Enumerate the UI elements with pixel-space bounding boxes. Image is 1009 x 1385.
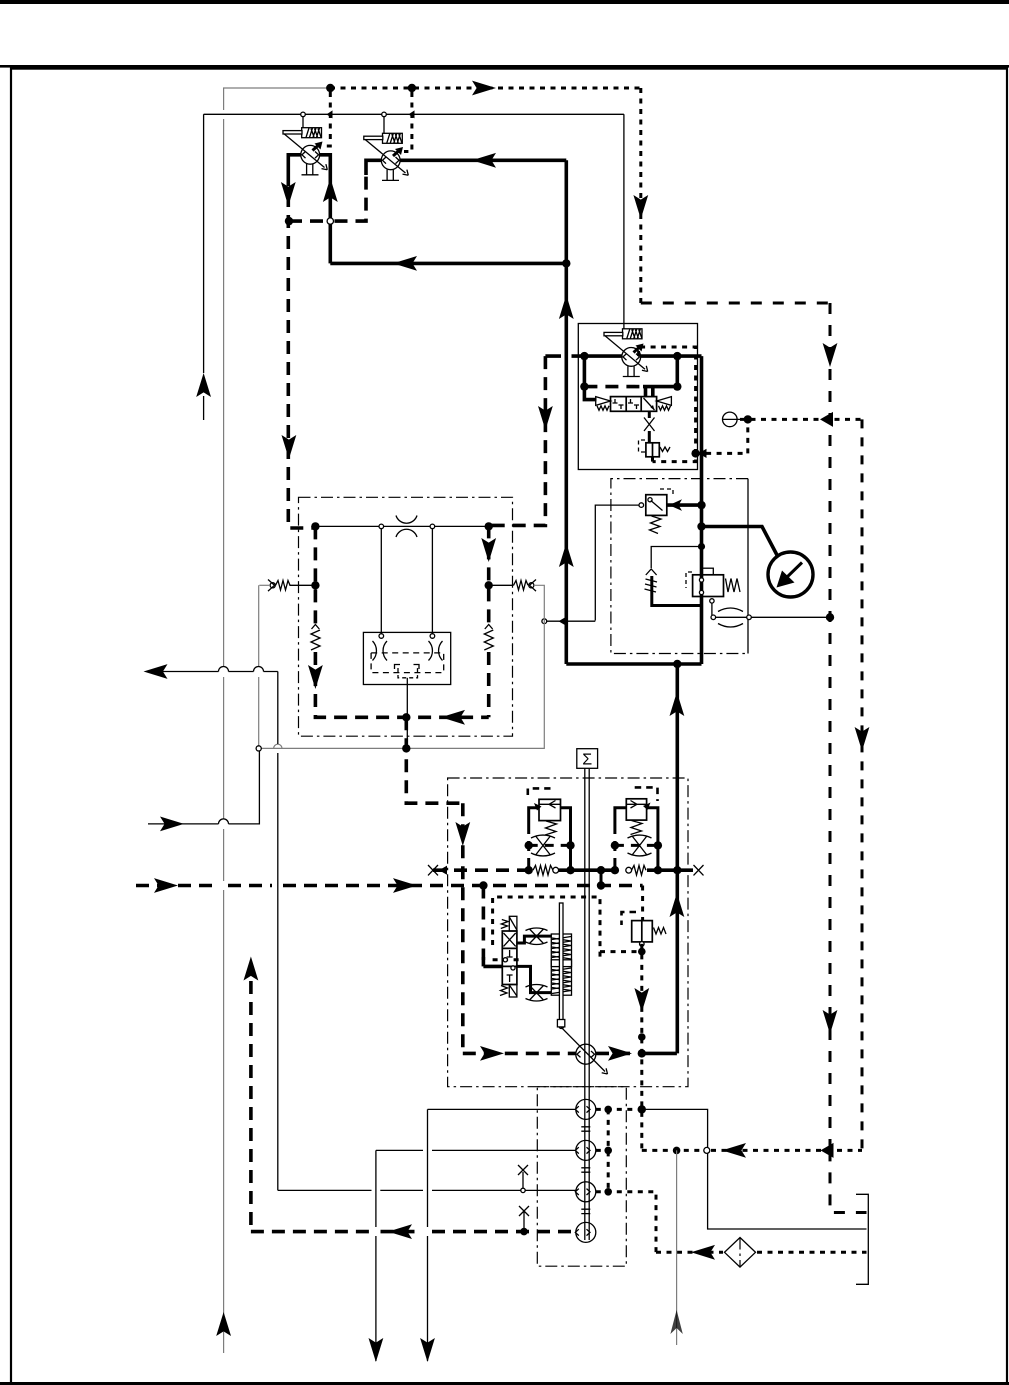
- left relief RL1: dashed bracket: [528, 788, 551, 795]
- hop circle on y=1150.4 at suction line: [704, 1147, 710, 1153]
- heavy return vertical x=677.3: [675, 664, 679, 1053]
- gear pump G3: [576, 1182, 596, 1202]
- motor M2 shaft: [382, 170, 399, 181]
- wire: gray signal long vertical x=223.6: [223, 95, 225, 1353]
- gauge link heavy: [702, 527, 778, 557]
- enclosure: fan pump thin rect: [578, 324, 697, 470]
- node dot (676.6,1150.4): [673, 1147, 681, 1155]
- arrow up on x=203.6: [196, 373, 211, 397]
- pump P3 flow triangles: [623, 354, 640, 361]
- relief valve RV1 body: [646, 443, 659, 457]
- pilot chevron arrow: [646, 569, 657, 575]
- arrowhead small left at x=412 crossing: [409, 110, 415, 118]
- RL1 valve body: [539, 799, 561, 820]
- arrow up on x=677.3 upper: [670, 692, 685, 716]
- node dot (412,88): [408, 84, 416, 92]
- arrow down on left leg: [308, 665, 323, 689]
- variable arrow M1 (diagonal): [284, 134, 325, 168]
- node dot (483.4,885.5): [479, 881, 487, 889]
- enclosure: pump regulator dash-dot rect: [448, 778, 688, 1087]
- gauge needle: [784, 563, 802, 581]
- throttle X lower: [526, 985, 548, 1001]
- arrow down x=427.5: [420, 1338, 435, 1362]
- heavy solid segment to return line: [642, 1052, 677, 1056]
- hop circle at (330.3,221.1): [327, 218, 333, 224]
- node dot (601,885.5): [597, 881, 605, 889]
- node dot (677.3,870.2): [673, 866, 681, 874]
- node dot (677.3,664): [673, 660, 681, 668]
- servo valve symbols: [504, 933, 516, 982]
- arrow down on x=641.8: [634, 988, 649, 1012]
- heavy main y=356.1: [545, 354, 701, 358]
- arrow right on y=1053.4 left: [480, 1046, 504, 1061]
- node circle (258.7,748.4): [256, 746, 261, 751]
- filter F1 diamond: [725, 1238, 756, 1268]
- heavy pilot y=386.6: [584, 385, 643, 389]
- heavy dash x=483.4: [482, 886, 486, 961]
- node dot (677.3,386.6): [673, 382, 681, 390]
- arrow up on x=677.3 lower: [670, 893, 685, 917]
- node dot (584.4,356.1): [580, 352, 588, 360]
- arrow down on x=462.8: [455, 822, 470, 846]
- wire y=1150.4 to G2: [376, 1149, 576, 1151]
- node dot (747.8,419.4): [744, 415, 752, 423]
- heavy dash x=462.8: [461, 803, 465, 1053]
- arrow left on y=1231.6: [388, 1224, 412, 1239]
- pilot dotted y=1150.4: [642, 1149, 862, 1152]
- gray arrow up x=676.6: [670, 1310, 682, 1334]
- motor M1 shaft: [302, 164, 319, 175]
- valve V1 left spring: [597, 406, 609, 411]
- node dot (289,221): [285, 217, 293, 225]
- enclosure: swing block dash-dot rect: [299, 497, 513, 736]
- arrow up on x=250.9: [244, 957, 259, 981]
- pilot dotted L to gauge node: [696, 419, 748, 453]
- hop on y=748.4 at x=277.8: [274, 744, 282, 748]
- arrow down on x=862: [855, 727, 870, 751]
- link marks G0-G1: [581, 1127, 590, 1131]
- pilot heavy dash y=885.5 with arrows: [136, 884, 643, 888]
- main relief pilot node: [698, 543, 705, 550]
- node dot (330,88): [326, 84, 334, 92]
- servo cap spring: [501, 920, 508, 929]
- node dot y=870 x=600 junction: [597, 866, 605, 874]
- heavy feed to servo: [483, 965, 502, 969]
- main pump P0 circle: [576, 1044, 596, 1064]
- heavy dash drain x=406.3 down: [406, 717, 463, 803]
- motor M1 circle: [301, 145, 320, 164]
- node dot (524,1231.6): [520, 1228, 528, 1236]
- orifice X on valve outlet: [644, 418, 655, 432]
- arrow down on x=830 (lower): [823, 1010, 838, 1034]
- solenoid P3 hatch: [627, 329, 642, 338]
- port circles on y=526.4: [379, 524, 384, 529]
- swing brake dashed rect: [371, 653, 444, 673]
- X end mark left of y=870: [428, 865, 438, 875]
- gauge body: [768, 552, 813, 597]
- port wire y=823.9 with right arrow, corner up to drain circle: [148, 751, 259, 824]
- pilot dotted line y=88: [330, 87, 641, 90]
- solenoid M2 stem: [383, 117, 385, 134]
- RL1 spring: [545, 821, 557, 835]
- arrowhead left on gauge pilot at box: [699, 449, 707, 458]
- compensator valve CV body: [646, 495, 667, 516]
- motor M1 flow triangles: [302, 152, 319, 159]
- gray vertical x=258.7: [258, 585, 260, 746]
- pilot dotted vertical x=640.8: [639, 88, 642, 303]
- G1 outlet dotted: [596, 1108, 642, 1111]
- CV outlet heavy with arrow: [667, 503, 702, 507]
- RL2 spring: [631, 821, 643, 835]
- servo pilot cap: [509, 916, 517, 931]
- swing motor port stems: [381, 529, 432, 634]
- heavy solid vertical x=566.3: [564, 160, 568, 664]
- heavy stub x=677.3: [675, 356, 679, 387]
- motor drain wire x=407.3: [406, 678, 408, 749]
- servo upper branch heavy: [517, 936, 551, 943]
- node dot (566.3,263.4): [562, 259, 570, 267]
- RL2 throttle dash y=845.4: [615, 844, 658, 847]
- heavy dash swing left leg x=315.4: [315, 526, 488, 717]
- swing supply thin line y=526.4: [315, 525, 488, 527]
- servo dotted box: [493, 897, 600, 960]
- arrow right on y=88: [472, 81, 496, 96]
- RL1 throttle dash y=845.4: [529, 844, 571, 847]
- gray wire to left check: [259, 584, 270, 586]
- arrowhead left on y=621.2 at main line: [559, 616, 568, 626]
- heavy dash vertical x=830: [829, 303, 832, 1150]
- solenoid M1 stem: [302, 117, 304, 128]
- arrow down on right leg: [481, 538, 496, 562]
- arrow up on x=330.3: [323, 178, 338, 202]
- node dot (584.4,386.6): [580, 382, 588, 390]
- sigma linkage double line: [585, 768, 589, 1240]
- check on main line right: [626, 867, 632, 873]
- solenoid P3 body: [623, 329, 643, 339]
- RL2 loop heavy: [615, 808, 627, 824]
- node dot (488.7,526.4): [485, 522, 493, 530]
- check valve right: [489, 581, 528, 591]
- check valve left: [270, 583, 275, 588]
- solenoid M2 body: [383, 133, 403, 143]
- link marks G1-G2: [581, 1168, 590, 1172]
- wire x=375.9 down: [375, 1150, 377, 1361]
- MR drain circle and curves: [710, 599, 714, 603]
- orifice stub at (523,1190.4): [521, 1188, 525, 1192]
- suction thin from G1 line to tank: [642, 1109, 867, 1229]
- node: open circle solenoid2 tap: [382, 112, 387, 117]
- wire: gray signal line top (corner to dotted node): [224, 88, 330, 95]
- return dotted y=1252.3 with filter: [656, 1251, 867, 1254]
- motor M1 right port heavy down to return: [320, 155, 331, 264]
- drain pilot circle at x=544.3: [542, 619, 547, 624]
- RL2 throttle X: [628, 835, 652, 856]
- piston hatch upper: [552, 937, 571, 960]
- motor M2 swash heavy arrow: [393, 151, 399, 156]
- main line y=870.2: [433, 868, 529, 872]
- CV dashed bracket top-right: [660, 489, 673, 495]
- regulator valve body: [632, 921, 653, 942]
- port wire y=671.5 with left arrow: [158, 667, 278, 672]
- pump P3 swash heavy arrow: [634, 348, 640, 353]
- arrow up on x=566.3 (upper): [559, 295, 574, 319]
- valve V1 right pilot triangle: [657, 397, 672, 406]
- node dot (701.5,526.5): [697, 522, 705, 530]
- node dot (701.5,505.1): [697, 501, 705, 509]
- regulator outlet circle: [640, 942, 645, 947]
- wire: thin vertical x=203.6 with up arrow (port): [203, 114, 205, 420]
- servo bottom spring: [500, 986, 508, 996]
- right relief RL2: dashed bracket: [635, 787, 658, 801]
- RL1 loop heavy: [529, 808, 540, 824]
- heavy dash y=221.1 link: [289, 175, 366, 221]
- RL1 throttle X: [531, 835, 555, 856]
- brake arcs top: [396, 516, 417, 538]
- MR spring right: [726, 579, 741, 593]
- heavy dash x=545.4 to swing: [489, 356, 546, 525]
- pilot dotted y=419.4 to x=862: [740, 418, 862, 421]
- X end mark right of y=870: [694, 865, 704, 875]
- piston hatch lower: [552, 968, 571, 994]
- solenoid M1 hatch: [306, 128, 321, 138]
- CV pilot line with circle: [639, 503, 644, 508]
- wire x=427.5 down: [427, 1109, 429, 1361]
- arrow down on x=640.8: [633, 195, 648, 219]
- pump P3 circle: [622, 348, 641, 367]
- node dot (315.4,526.4): [311, 522, 319, 530]
- node dot (641.8,1109.4): [638, 1105, 646, 1113]
- gear pump G2: [576, 1140, 596, 1160]
- tank T1: [856, 1194, 868, 1284]
- valve V1 outlet heavy x=649.3: [648, 411, 651, 443]
- pilot spring marks: [645, 579, 658, 592]
- regulator valve heavy dotted drop x=642: [641, 886, 644, 921]
- arrow left on swing bottom: [441, 710, 465, 725]
- heavy dash supply y=1053.4: [463, 1052, 642, 1056]
- variable arrow M2: [365, 139, 406, 173]
- top page bar: [0, 0, 1009, 4]
- wire y=1190.4 to G3: [278, 1189, 576, 1191]
- solenoid P3 plunger rod: [604, 332, 623, 335]
- node: open circle solenoid1 tap: [301, 112, 306, 117]
- bottom page bar: [0, 1382, 1009, 1385]
- CV spring below: [650, 516, 662, 534]
- dotted header x=608.2: [607, 1109, 610, 1191]
- svg-text:Σ: Σ: [582, 752, 592, 769]
- arrow left on y=1150.4: [722, 1143, 746, 1158]
- regulator dashed bracket: [622, 912, 637, 925]
- MR dashed bracket left: [686, 572, 692, 588]
- motor bottom marks: [395, 665, 420, 670]
- heavy dotted x=641.8 down: [640, 944, 643, 1151]
- node dot (641.8,1037): [638, 1033, 646, 1041]
- node dot (315.4,585.3): [311, 581, 319, 589]
- motor M1 left port heavy: [288, 155, 301, 173]
- pilot wire from drain line to CV: [595, 505, 639, 620]
- RV1 tail: [651, 457, 654, 462]
- heavy dash y=303 top right: [641, 302, 830, 305]
- gear pump G1: [576, 1099, 596, 1119]
- arrow left on y=1252.3: [691, 1245, 715, 1260]
- RL1 node dots: [525, 841, 533, 849]
- solenoid M1 body: [302, 128, 322, 138]
- gray wire from right check: [259, 585, 545, 748]
- arrowhead left at x=830/y=1150 tee: [821, 1143, 834, 1158]
- gauge port circle: [723, 412, 738, 427]
- wire x=277.8 vertical: [277, 672, 279, 1191]
- solenoid M2 plunger rod: [364, 136, 383, 139]
- servo piston body: [551, 934, 571, 995]
- regulator spring right: [654, 928, 667, 935]
- servo valve body: [502, 931, 517, 985]
- motor M2 left port heavy: [366, 160, 382, 175]
- heavy pump left port x=584.4: [584, 356, 596, 400]
- arrow up on x=566.3 (lower): [559, 543, 574, 567]
- drain dotted x=830 to tank: [830, 1150, 867, 1212]
- drain pilot wire y=621.2: [547, 620, 596, 622]
- enclosure: gear pump dash-dot rect: [537, 1087, 626, 1267]
- arrow down on x=288.3 upper: [281, 182, 296, 206]
- motor drain dashed boxlet: [398, 668, 418, 678]
- swing motor arcs: [373, 641, 443, 661]
- spring on left leg: [311, 625, 320, 651]
- heavy dash vertical x=862: [861, 419, 864, 1150]
- motor M2 circle: [381, 151, 400, 170]
- RV1 dashed bracket: [639, 440, 646, 452]
- arrow down on x=545.4: [538, 406, 553, 430]
- heavy dash swing right leg x=488.7: [487, 525, 491, 717]
- top rule: [0, 65, 1009, 68]
- arrow left on y=160.3: [472, 153, 496, 168]
- G2 outlet dotted: [596, 1149, 608, 1152]
- heavy dash pump4 line y=1231.6: [251, 1230, 576, 1234]
- node dot on dotted box (695.6,453.4): [691, 449, 699, 457]
- regulator pilot dotted y=951.6: [600, 950, 642, 953]
- arrowhead small left on y=870: [439, 866, 447, 875]
- node dot (406.3,748.4): [402, 744, 410, 752]
- valve V1 right spring: [659, 406, 671, 411]
- servo bottom cap: [509, 985, 517, 998]
- arrow down on x=830 (upper): [823, 343, 838, 367]
- arrow up on gray vertical near bottom: [216, 1312, 231, 1336]
- heavy vent L: [652, 576, 702, 606]
- node dot (641.8,951.6): [638, 948, 646, 956]
- spring on right leg: [484, 625, 493, 651]
- drain line y=617.3: [711, 615, 716, 620]
- link marks G2-G3: [581, 1209, 590, 1213]
- main pump swash diagonal: [561, 1027, 605, 1071]
- piston mid band: [551, 960, 571, 967]
- node dot (641.8,1053.4): [638, 1049, 646, 1057]
- arrowhead left on y=419.4: [820, 412, 833, 427]
- solenoid M1 plunger rod: [283, 131, 302, 134]
- swing motor body rect: [363, 632, 450, 684]
- variable arrow P3: [605, 336, 645, 369]
- servo lower branch heavy: [517, 966, 551, 992]
- heavy return y=663.9: [566, 662, 701, 666]
- swash head box: [557, 1020, 564, 1027]
- throttle X upper: [526, 928, 548, 944]
- arrow down on x=288.3 lower: [282, 435, 297, 459]
- gray return x=676.6 to bottom: [676, 1150, 678, 1345]
- wire y=1109.4 to G1: [428, 1108, 576, 1110]
- feedback rod: [559, 903, 563, 1023]
- motor M1 swash heavy arrow: [313, 146, 319, 151]
- motor M2 flow triangles: [383, 157, 400, 164]
- valve V1 left pilot triangle: [596, 397, 611, 406]
- heavy vertical x=701.5 (pump3 outlet): [700, 356, 704, 664]
- heavy solid y=263.4: [330, 262, 566, 266]
- pilot dotted box around pump3 valve: [639, 347, 696, 462]
- heavy dash x=288.3 (fan motor return): [288, 173, 315, 528]
- G3 outlet dotted: [596, 1192, 656, 1253]
- RL2 valve body: [626, 799, 646, 820]
- arrow left on y=263.4: [393, 256, 417, 271]
- stub x=601 between 870 and 885: [600, 870, 603, 885]
- main relief valve MR body: [693, 575, 724, 597]
- pump P3 shaft: [623, 366, 640, 376]
- wire: thin vertical x=623.9 down to pump3 solenoid: [623, 114, 625, 328]
- pilot dotted stub to M1 swash: [322, 92, 330, 146]
- arrow right on y=1053.4 right: [608, 1046, 632, 1061]
- pilot dotted stub to M2 swash: [404, 92, 412, 152]
- node dot (677.3,356.1): [673, 352, 681, 360]
- heavy dash riser x=250.9: [249, 981, 253, 1232]
- pilot wire y=546.5: [651, 547, 701, 569]
- motor M2 right port heavy to x=566: [400, 159, 566, 163]
- RV1 spring: [660, 447, 670, 452]
- orifice stub at (524,1231.6): [519, 1206, 529, 1229]
- solenoid M2 hatch: [387, 134, 402, 143]
- enclosure: relief block dash-dot rect: [611, 479, 748, 654]
- check on main line left: [533, 865, 553, 875]
- wire: thin control line y=114.3: [204, 113, 624, 115]
- valve V1 cell symbols: [613, 398, 655, 410]
- sigma box: [577, 749, 598, 769]
- gear pump G4: [576, 1222, 596, 1242]
- node dot (488.7,585.3): [485, 581, 493, 589]
- node dot (406.3,717.3): [402, 713, 410, 721]
- arrowhead small left at x=330 crossing: [327, 110, 333, 118]
- RL2 node dots: [611, 841, 619, 849]
- valve V1 body (4-way): [611, 397, 657, 412]
- arrow down x=375.9: [369, 1338, 384, 1362]
- node dot (831,617.3): [826, 613, 834, 621]
